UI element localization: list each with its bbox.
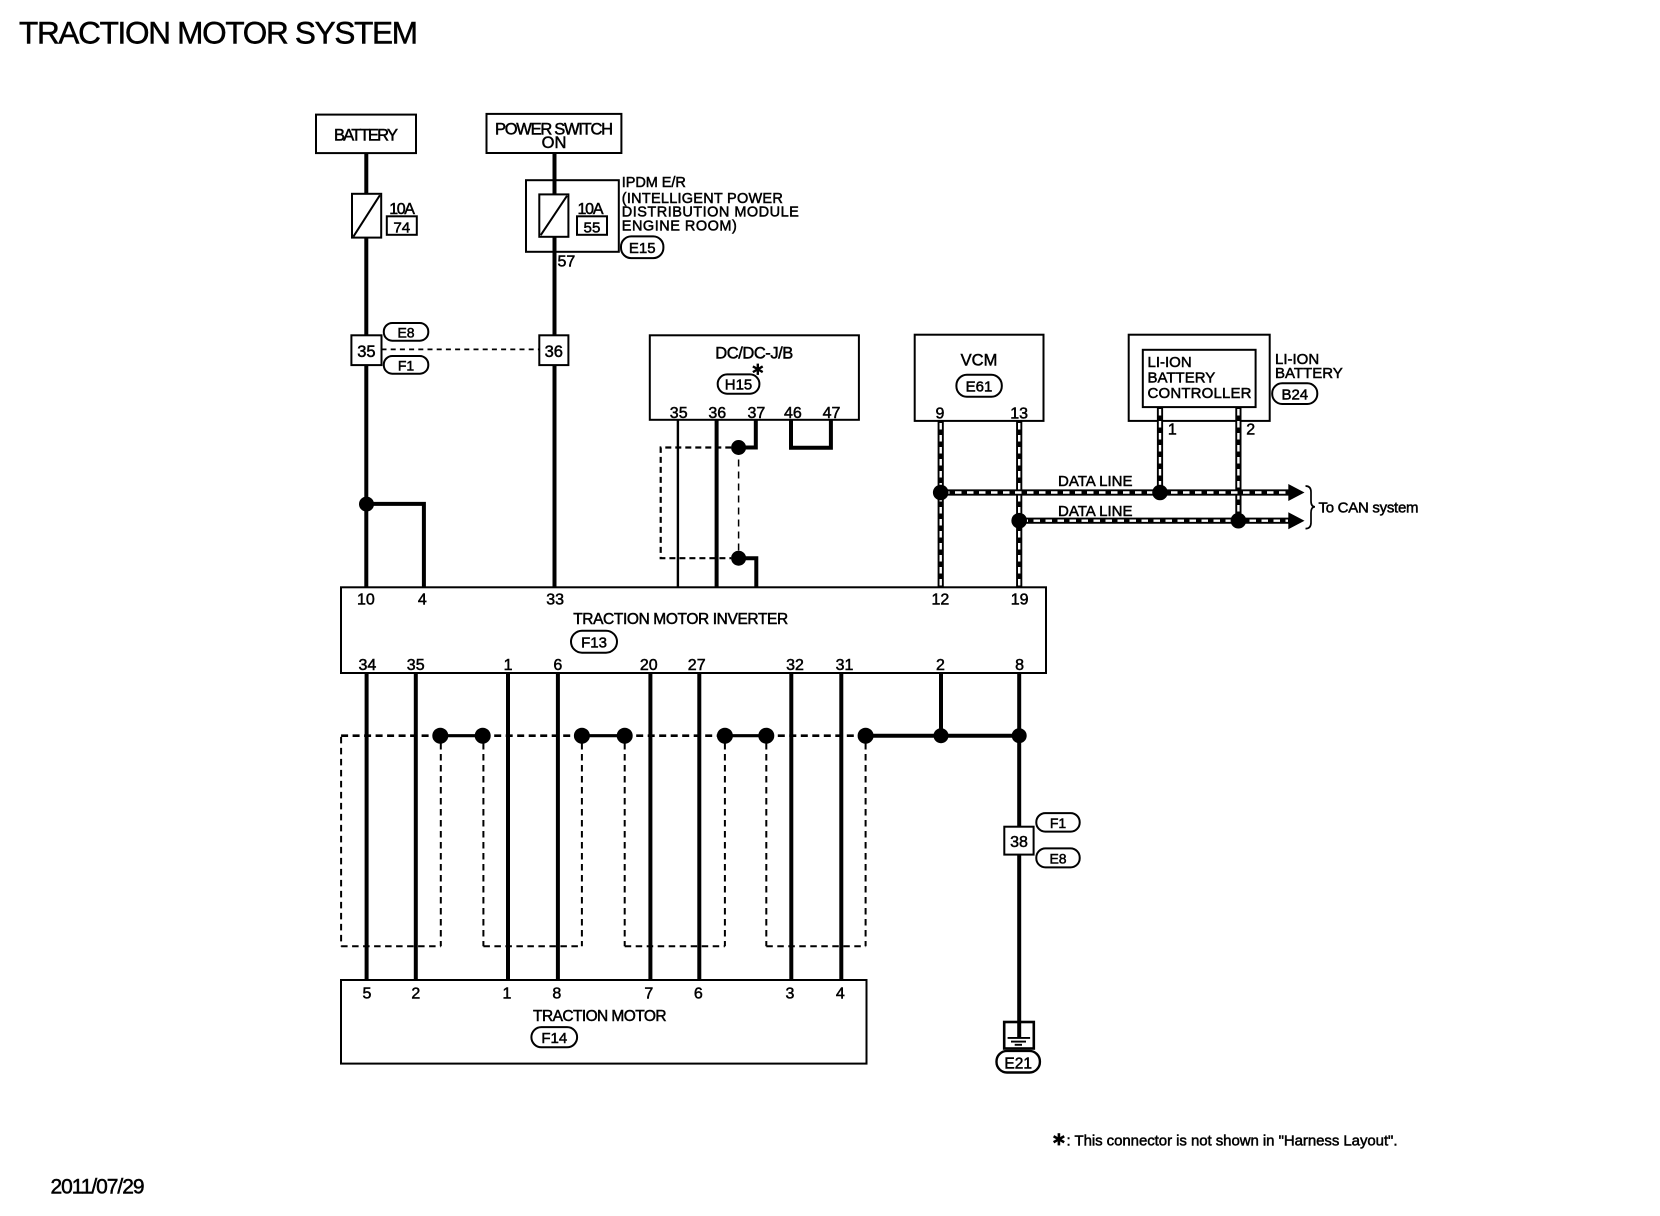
dashed shield box left of H15 wires [661,448,732,559]
svg-text:CONTROLLER: CONTROLLER [1148,385,1252,402]
junction node shield 8 (inverter 2) [934,728,949,743]
svg-text:27: 27 [688,657,706,674]
svg-text:E15: E15 [629,240,656,257]
junction node data line 2 / VCM 13 [1011,513,1027,529]
shield drop dashed 6 [765,743,767,946]
shield bottom dashed 2 [483,945,582,947]
svg-text:38: 38 [1010,834,1028,851]
svg-text:IPDM E/R: IPDM E/R [622,175,686,191]
arrowhead data line 1 [1288,484,1304,501]
arrowhead data line 2 [1288,512,1304,529]
svg-text:8: 8 [552,985,561,1002]
connector 38 box [1004,827,1033,855]
svg-text:35: 35 [407,657,425,674]
svg-text:2: 2 [411,985,420,1002]
shield bus dashed segment 1 [341,734,440,737]
VCM block E61 [915,335,1044,421]
DATA LINE 2 CAN wire [1019,518,1290,524]
svg-text:3: 3 [786,985,795,1002]
dashed connector link 35-36 [382,348,540,350]
junction node shield 2 [475,728,491,744]
wire battery to fuse 74 [364,153,368,194]
junction node shield 1 [432,728,448,744]
shield bus dashed segment 3 [625,734,725,737]
TRACTION MOTOR INVERTER block F13 [341,587,1046,673]
brace to CAN system [1306,486,1316,529]
wire connector 36 to inverter pin 33 [553,365,557,587]
svg-text:8: 8 [1015,657,1024,674]
wire inverter 27 to motor 6 [697,673,701,980]
svg-text:6: 6 [694,985,703,1002]
svg-text:37: 37 [748,405,766,422]
shield bus solid segment 2 [580,734,627,737]
wire branch to inverter pin 4 [367,504,424,587]
svg-text:74: 74 [393,219,410,236]
svg-text:TRACTION MOTOR: TRACTION MOTOR [533,1008,667,1025]
node POWER SWITCH ON [487,114,622,153]
svg-text:12: 12 [932,591,950,608]
svg-text:6: 6 [553,657,562,674]
svg-text:9: 9 [935,406,944,423]
connector F14 oval [531,1027,577,1047]
svg-text:33: 33 [546,591,564,608]
svg-text:32: 32 [786,657,804,674]
shield bus solid segment 3 [723,734,769,737]
DATA LINE 1 CAN wire [941,489,1290,495]
svg-text:VCM: VCM [961,352,998,370]
fuse number box 55 [577,216,607,235]
svg-text:ON: ON [542,134,567,152]
wire inverter 2 to shield bus [939,673,943,736]
wire H15 pin 36 to inverter [715,420,719,588]
ground E21 [1004,1022,1034,1049]
svg-text:2: 2 [1246,422,1255,439]
junction node data line 1 / controller 1 [1152,485,1168,501]
shield drop dashed 3 [581,743,583,946]
wire power switch to IPDM [553,153,557,194]
svg-text:E21: E21 [1004,1055,1032,1072]
wire inverter 6 to motor 8 [556,673,560,980]
shield bottom dashed 1 [341,945,441,947]
connector E8 oval (right) [1036,848,1079,867]
junction node shield bottom [731,551,746,566]
wire connector 38 to ground [1017,855,1021,1022]
svg-text:13: 13 [1010,406,1028,423]
svg-text:10: 10 [357,591,375,608]
wire inverter 35 to motor 2 [414,673,418,980]
node BATTERY [316,115,416,154]
connector F1 oval (right) [1036,813,1079,832]
IPDM E/R box E15 [526,180,619,252]
svg-text:TRACTION MOTOR SYSTEM: TRACTION MOTOR SYSTEM [19,15,418,51]
shield bus solid segment 1 [438,734,485,737]
wire inverter 31 to motor 4 [839,673,843,980]
svg-text:F1: F1 [398,358,415,374]
wire H15 pin 35 to inverter [677,420,679,588]
svg-text:BATTERY: BATTERY [1275,365,1343,382]
connector F1 oval [384,356,429,374]
svg-text:55: 55 [584,219,601,236]
svg-text:E8: E8 [397,325,414,341]
footnote asterisk [1054,1133,1065,1145]
svg-text:7: 7 [644,985,653,1002]
svg-text:H15: H15 [725,377,753,394]
connector 35 box [351,335,381,365]
svg-text:DATA LINE: DATA LINE [1058,503,1132,520]
wire inverter 34 to motor 5 [365,673,369,980]
shield bottom dashed 4 [766,945,865,947]
junction node shield 4 [617,728,633,744]
shield bottom dashed 3 [625,945,725,947]
fuse 10A 55 [539,194,568,236]
junction node shield 6 [758,728,774,744]
svg-text:F14: F14 [541,1030,567,1047]
wire connector 35 to inverter pin 10 [364,365,368,587]
shield drop dashed left outer [340,737,342,946]
svg-text:35: 35 [670,405,688,422]
CAN wire controller pin 2 to data line [1235,407,1241,521]
shield drop dashed 2 [482,743,484,946]
svg-text:DATA LINE: DATA LINE [1058,473,1132,490]
TRACTION MOTOR block F14 [341,980,867,1064]
svg-text:F13: F13 [581,635,607,652]
junction node shield 9 (inverter 8) [1012,728,1027,743]
shield drop dashed 1 [440,743,442,946]
svg-text:4: 4 [836,985,845,1002]
wire fuse 74 to connector 35 [364,238,368,336]
svg-text:ENGINE ROOM): ENGINE ROOM) [622,219,737,235]
asterisk marker at H15 [753,364,763,375]
shield bus dashed segment 4 [766,734,865,737]
svg-text:46: 46 [784,405,802,422]
wire H15 pins 46-47 loop [791,420,831,448]
svg-text:DC/DC-J/B: DC/DC-J/B [715,345,793,363]
junction node battery branch [359,497,374,512]
svg-text:47: 47 [823,405,841,422]
fuse number box 74 [387,216,417,235]
connector E15 oval [621,236,663,258]
svg-text:36: 36 [545,343,563,361]
svg-text:: This connector is not shown: : This connector is not shown in "Harnes… [1067,1132,1398,1149]
svg-text:TRACTION MOTOR INVERTER: TRACTION MOTOR INVERTER [573,611,788,628]
wire inverter 32 to motor 3 [789,673,793,980]
shield drop dashed 7 [865,743,867,946]
svg-text:F1: F1 [1050,815,1067,831]
svg-text:2: 2 [936,657,945,674]
junction node data line 1 / VCM 9 [933,485,949,501]
connector H15 oval [718,374,760,393]
junction node data line 2 / controller 2 [1231,513,1247,529]
wire inverter 1 to motor 1 [506,673,510,980]
shield drop dashed 4 [624,743,626,946]
svg-text:To CAN system: To CAN system [1319,500,1419,517]
svg-text:E61: E61 [966,379,993,396]
svg-text:31: 31 [836,657,854,674]
wire H15 pin 37 elbow [739,420,756,448]
shield bus solid segment 4 (ground run) [864,734,1020,738]
connector B24 oval [1272,383,1317,404]
svg-text:1: 1 [1168,422,1177,439]
junction node shield 7 [858,728,874,744]
dashed wire between shield junctions [738,448,740,559]
wire inverter 8 to connector 38 [1017,673,1021,827]
wire shield bottom elbow to inverter [739,558,757,587]
svg-text:B24: B24 [1281,386,1308,403]
connector F13 oval [571,631,617,653]
connector E61 oval [956,375,1001,397]
svg-text:E8: E8 [1049,851,1066,867]
shield bus dashed segment 2 [483,734,582,737]
CAN wire controller pin 1 to data line [1157,407,1163,492]
svg-text:2011/07/29: 2011/07/29 [51,1176,145,1199]
connector E21 oval [997,1051,1040,1073]
shield drop dashed 5 [724,743,726,946]
LI-ION BATTERY CONTROLLER block [1129,335,1270,421]
DC/DC junction block H15 [650,335,859,420]
svg-text:4: 4 [418,591,427,608]
wire inverter 20 to motor 7 [648,673,652,980]
svg-text:1: 1 [504,657,513,674]
svg-text:36: 36 [708,405,726,422]
svg-text:1: 1 [503,985,512,1002]
junction node shield 3 [574,728,590,744]
svg-text:BATTERY: BATTERY [1148,369,1216,386]
junction node shield top [731,440,746,455]
connector E8 oval [384,323,429,341]
svg-text:34: 34 [359,657,377,674]
svg-text:35: 35 [357,343,375,361]
svg-text:5: 5 [363,985,372,1002]
CAN wire VCM pin 9 to inverter pin 12 [938,421,944,587]
svg-text:19: 19 [1011,591,1029,608]
connector 36 box [539,335,568,365]
svg-text:BATTERY: BATTERY [334,127,398,145]
svg-text:57: 57 [558,253,576,270]
wire IPDM pin 57 down to connector 36 [553,237,557,335]
svg-text:20: 20 [640,657,658,674]
junction node shield 5 [717,728,733,744]
fuse 10A 74 [352,194,381,238]
CAN wire VCM pin 13 to inverter pin 19 [1016,421,1022,587]
